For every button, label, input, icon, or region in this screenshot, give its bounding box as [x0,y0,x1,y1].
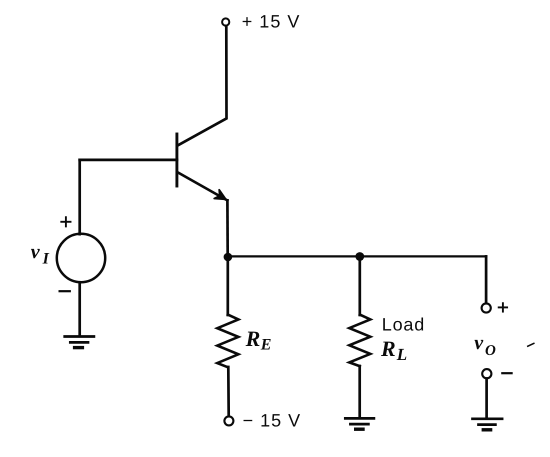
svg-text:v: v [31,241,41,263]
svg-text:+ 15 V: + 15 V [242,11,301,31]
ground under vO [473,419,503,430]
node junction dot (load node) [355,252,364,261]
plus sign of vO [499,303,507,311]
minus sign of vO [502,372,511,374]
svg-text:O: O [485,343,496,359]
wire: base [80,159,177,162]
vO + terminal [482,303,491,312]
wire: bus corner down to vO + terminal [485,256,488,303]
-15V supply terminal [224,416,233,425]
resistor RL zigzag [349,315,370,367]
transistor Q1 emitter diagonal [178,173,227,201]
wire: vO - terminal to ground [485,379,488,419]
wire: source bottom to ground [78,282,81,336]
svg-text:L: L [396,345,407,364]
node junction dot (emitter node) [224,253,233,262]
wire: node down to RL [358,257,361,316]
ground under vI [65,337,94,348]
wire: base to source top [78,160,81,234]
wire: collector to +15V [178,26,226,145]
svg-text:− 15 V: − 15 V [243,411,302,431]
ground under RL [345,418,374,429]
wire: horizontal node bus [228,255,486,257]
+15V supply terminal [222,18,229,25]
stray scan tick [528,343,534,346]
plus sign of vI [61,217,70,226]
svg-text:E: E [260,336,272,353]
svg-text:R: R [245,326,261,351]
transistor Q1 emitter arrowhead [214,190,226,200]
wire: RE to -15V terminal [227,367,230,416]
wire: RL to ground [358,366,361,418]
wire: node down to RE [226,257,229,315]
wire: emitter corner down to node [226,200,229,257]
svg-text:v: v [474,332,484,354]
vO - terminal [482,369,491,378]
svg-text:I: I [42,251,50,268]
svg-text:R: R [380,336,396,361]
transistor Q1 base bar [175,134,178,186]
svg-text:Load: Load [382,314,425,334]
resistor RE zigzag [217,315,238,368]
source vI circle [57,234,105,282]
minus sign of vI [60,290,70,292]
